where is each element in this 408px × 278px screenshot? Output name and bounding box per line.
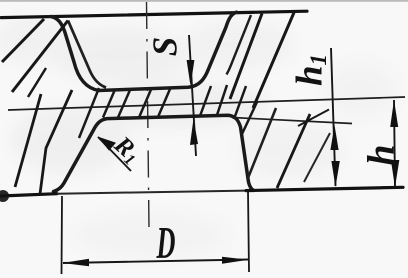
web hatch 2 <box>118 90 130 118</box>
hatch lower-left 1 <box>40 90 72 194</box>
hatch lower-right 1 <box>277 114 310 188</box>
centerline <box>147 2 150 228</box>
web hatch 7 <box>234 86 246 119</box>
dimension D: arrow right <box>222 257 249 264</box>
scan edge artifact top <box>0 0 408 2</box>
dimension D: left extension line <box>61 196 64 274</box>
hatch upper-left 1 <box>2 19 44 62</box>
wire: flank double line left <box>68 21 106 88</box>
groove outline (upper trapezoid cavity) <box>51 12 237 90</box>
scan blob bottom-left <box>0 190 9 202</box>
line L1 (long thin pitch line) <box>8 97 405 110</box>
dimension S: arrow up <box>190 119 198 146</box>
hatch upper-right 2 <box>253 13 294 109</box>
lower cavity outline <box>54 115 254 191</box>
dimension h: arrow down <box>391 160 399 188</box>
web hatch 6 <box>217 85 227 115</box>
svg-text:D: D <box>156 219 176 269</box>
dimension h: arrow up <box>390 100 398 127</box>
hatch upper-left 2 <box>12 21 68 93</box>
dimension D: arrow left <box>63 259 90 266</box>
hatch right-mid 1 <box>242 102 257 134</box>
web hatch 5 <box>200 86 211 116</box>
dimension h1: arrow up <box>330 125 338 150</box>
web hatch 0 <box>79 88 99 138</box>
dimension D: right extension line <box>248 191 249 272</box>
web hatch 1 <box>103 90 115 118</box>
dimension D: line <box>63 260 248 264</box>
svg-text:h1: h1 <box>289 54 331 86</box>
bottom surface line <box>1 194 57 196</box>
line L2 extension right <box>232 118 352 124</box>
hatch right-mid shallow <box>298 110 329 127</box>
svg-text:h: h <box>361 144 403 165</box>
hatch upper-left 3 <box>28 68 46 97</box>
hatch lower-right 2 <box>304 133 330 182</box>
dimension S: arrow down <box>187 60 195 86</box>
web hatch 4 <box>158 89 170 117</box>
hatch upper-right 1 <box>230 14 262 100</box>
svg-text:S: S <box>146 37 185 56</box>
leader R1 arrow <box>98 137 131 171</box>
wire: flank double line right <box>227 15 252 75</box>
wire: lower right flank hatch companion <box>248 108 276 178</box>
dimension h1: line <box>331 48 336 186</box>
web hatch 3 <box>139 90 151 118</box>
dimension S: line <box>189 35 196 156</box>
dimension h1: arrow down <box>331 161 339 187</box>
top surface line <box>1 11 307 17</box>
dimension h: line <box>394 100 395 187</box>
